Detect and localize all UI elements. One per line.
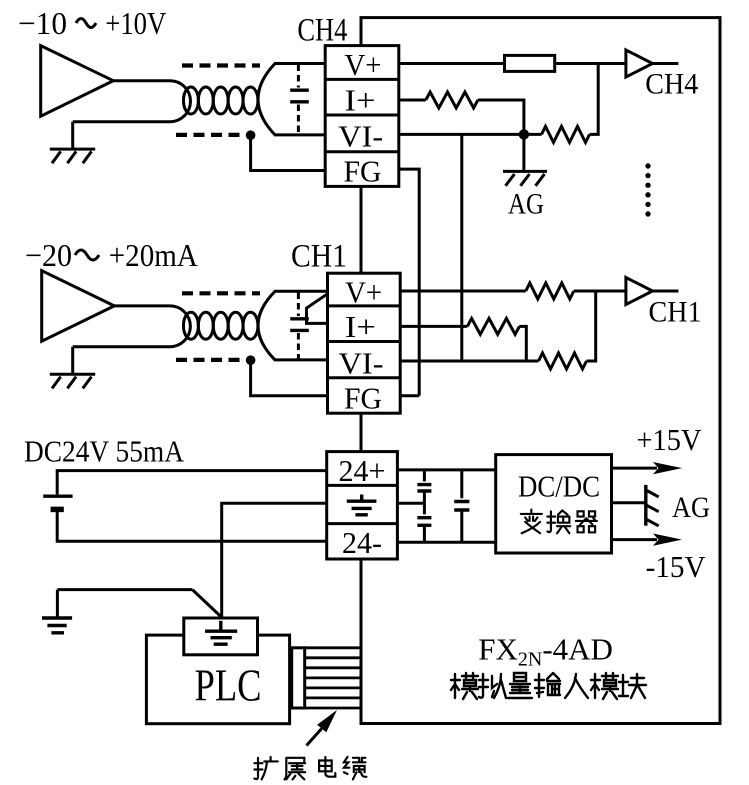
- source amplifier CH1 input: [42, 271, 115, 342]
- svg-text:24-: 24-: [342, 525, 382, 560]
- wire V+ left CH4: [274, 62, 325, 65]
- svg-text:CH4: CH4: [645, 68, 698, 101]
- wire amp out CH1: [653, 290, 679, 293]
- svg-text:+20mA: +20mA: [109, 237, 198, 273]
- wire mid right: [397, 502, 424, 505]
- svg-text:CH4: CH4: [297, 13, 347, 49]
- wire battery minus: [57, 511, 327, 541]
- svg-text:V+: V+: [345, 47, 382, 82]
- cable loop CH1: [73, 306, 191, 347]
- svg-text:AG: AG: [672, 491, 710, 524]
- terminal block CH1: [328, 273, 401, 413]
- wire earth horizontal: [57, 590, 192, 618]
- svg-text:VI-: VI-: [338, 119, 383, 154]
- wire FG link CH1: [251, 360, 328, 396]
- label -10~+10V: [18, 5, 166, 41]
- wire VI- right CH1: [400, 360, 538, 363]
- jumper V+ to I+ CH1: [307, 294, 328, 324]
- svg-text:24+: 24+: [339, 453, 386, 488]
- svg-text:I+: I+: [345, 309, 376, 344]
- ground box on PLC: [184, 618, 258, 655]
- shield dashed top CH1: [182, 291, 260, 295]
- ground source CH4: [50, 149, 95, 163]
- earth symbol left: [42, 618, 72, 633]
- module outline box FX2N-4AD: [361, 18, 720, 724]
- resistor R2: [426, 92, 478, 108]
- wire R4 to amp CH1: [574, 290, 626, 293]
- label -20~+20mA: [25, 237, 198, 273]
- wire 24- right: [397, 541, 495, 544]
- svg-text:−10: −10: [18, 5, 67, 41]
- ground AG right: [646, 485, 659, 526]
- resistor R4: [526, 283, 574, 299]
- wire earth left: [192, 590, 221, 617]
- wire FG right CH4: [399, 169, 419, 396]
- wire ground drop CH1 source: [71, 347, 74, 375]
- capacitor C2: [290, 319, 309, 331]
- svg-text:−20: −20: [25, 237, 72, 273]
- wire VI- left CH4: [274, 133, 325, 136]
- capacitor C1: [290, 90, 309, 102]
- wire battery plus: [57, 471, 327, 495]
- PLC box: [146, 635, 289, 724]
- wire I+ right CH4: [399, 99, 426, 102]
- wire AG out: [612, 501, 646, 504]
- op-amp buffer CH4 out: [626, 50, 653, 77]
- wire R3 up to out CH4: [590, 64, 599, 135]
- svg-text:CH1: CH1: [649, 296, 702, 329]
- resistor R3: [542, 126, 590, 142]
- capacitor C5: [454, 470, 469, 542]
- earth symbol PLC: [205, 621, 237, 644]
- source amplifier CH4 input: [41, 46, 114, 117]
- capacitor C3: [417, 470, 431, 503]
- wire +15V out: [612, 467, 658, 470]
- wire R5 down CH1: [519, 326, 526, 361]
- svg-text:FG: FG: [344, 154, 382, 189]
- resistor R1 box style: [505, 55, 555, 71]
- svg-text:-15V: -15V: [646, 549, 707, 584]
- svg-text:PLC: PLC: [195, 661, 262, 711]
- capacitor C2 dashed leads: [297, 293, 300, 360]
- DC/DC converter box U1: [496, 455, 612, 553]
- svg-text:DC/DC: DC/DC: [518, 469, 600, 504]
- wire FG right CH1: [400, 394, 419, 397]
- wire ground drop CH4 source: [71, 122, 74, 149]
- wire AG drop CH4: [522, 134, 525, 171]
- arrow -15V: [653, 534, 682, 546]
- wire VI- bus CH4 to CH1: [460, 134, 463, 361]
- wire V+ right CH4: [399, 62, 505, 65]
- ground source CH1: [50, 374, 95, 388]
- capacitor C1 dashed leads: [297, 65, 300, 135]
- cable funnel CH1: [258, 291, 275, 360]
- svg-text:DC24V 55mA: DC24V 55mA: [24, 434, 185, 469]
- cable loop CH4: [73, 81, 191, 122]
- junction dot CH4: [519, 129, 529, 139]
- shield dashed top CH4: [182, 63, 260, 67]
- svg-text:AG: AG: [508, 188, 544, 221]
- ground AG: [503, 171, 547, 185]
- wire I+ right CH1: [400, 325, 467, 328]
- svg-text:FX2N-4AD: FX2N-4AD: [478, 632, 613, 671]
- arrow expansion cable: [307, 710, 338, 746]
- shield node dot CH4: [246, 130, 256, 140]
- shield dashed bottom CH1: [176, 358, 242, 362]
- wire V+ right CH1: [400, 290, 526, 293]
- shield node dot CH1: [246, 355, 256, 365]
- svg-text:CH1: CH1: [291, 239, 347, 275]
- expansion cable ribbon: [305, 648, 361, 708]
- svg-text:FG: FG: [344, 381, 382, 416]
- svg-text:+10V: +10V: [105, 5, 166, 41]
- wire 24+ right: [397, 468, 495, 471]
- wire power ground left: [222, 503, 327, 618]
- wire FG link CH4: [251, 135, 326, 170]
- label CJK expansion cable: [254, 757, 366, 780]
- terminal block CH4: [325, 46, 399, 187]
- resistor R5: [467, 318, 519, 334]
- wire VI- left CH1: [274, 358, 328, 361]
- label CJK converter: [521, 510, 597, 534]
- svg-text:V+: V+: [345, 274, 382, 309]
- terminal block power: [327, 452, 398, 559]
- wire V+ left CH1: [274, 290, 328, 293]
- resistor R6: [539, 353, 587, 369]
- continuation dots: [645, 163, 650, 216]
- connector PLC: [292, 648, 305, 708]
- capacitor C4: [417, 503, 431, 542]
- label CJK module name: [451, 673, 646, 699]
- svg-text:I+: I+: [345, 82, 376, 117]
- twisted pair coil CH4: [183, 87, 258, 114]
- shield dashed bottom CH4: [176, 133, 242, 137]
- op-amp buffer CH1 out: [626, 278, 653, 305]
- battery BT1: [43, 496, 72, 509]
- wire amp out CH4: [653, 62, 679, 65]
- cable funnel CH4: [258, 64, 275, 135]
- svg-text:VI-: VI-: [339, 345, 384, 380]
- wire VI- right CH4: [399, 133, 542, 136]
- svg-text:+15V: +15V: [637, 422, 703, 457]
- wire R2 to junction: [478, 100, 524, 134]
- wire R6 up to out CH1: [587, 291, 596, 361]
- twisted pair coil CH1: [183, 312, 258, 339]
- earth symbol power block: [347, 495, 377, 515]
- wire -15V out: [612, 538, 658, 541]
- wire R1 to amp CH4: [555, 62, 626, 65]
- arrow +15V: [653, 462, 682, 474]
